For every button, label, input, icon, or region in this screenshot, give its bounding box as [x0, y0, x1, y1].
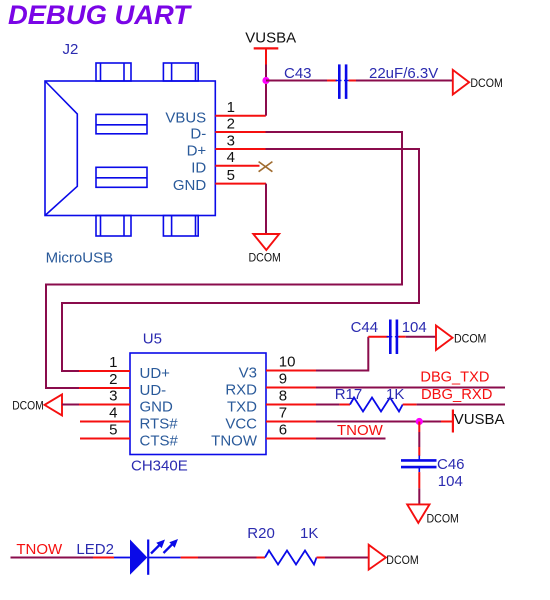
svg-text:104: 104 — [402, 319, 427, 336]
svg-text:CH340E: CH340E — [131, 458, 188, 475]
svg-text:7: 7 — [279, 405, 287, 422]
J2 shield tab top-left — [96, 63, 131, 81]
power DCOM (bottom right) — [369, 545, 419, 570]
IC U5 body — [130, 353, 266, 455]
svg-text:GND: GND — [140, 398, 174, 415]
svg-text:DBG_RXD: DBG_RXD — [421, 386, 493, 403]
svg-text:LED2: LED2 — [76, 541, 114, 558]
power symbol VUSBA (top) — [245, 29, 296, 64]
U5 pin 6 line — [266, 438, 316, 440]
svg-text:4: 4 — [109, 405, 117, 422]
svg-text:104: 104 — [438, 473, 463, 490]
svg-text:D+: D+ — [187, 143, 207, 160]
capacitor C46 — [401, 456, 437, 473]
svg-text:VUSBA: VUSBA — [245, 29, 296, 46]
wire C46 to DCOM — [418, 472, 420, 504]
svg-text:1K: 1K — [386, 386, 404, 403]
LED LED2 — [114, 539, 181, 575]
svg-text:D-: D- — [190, 126, 206, 143]
svg-text:DCOM: DCOM — [249, 251, 281, 265]
svg-text:1K: 1K — [300, 525, 318, 542]
wire U5 pin10 to C44 — [316, 337, 389, 371]
svg-text:3: 3 — [227, 132, 235, 149]
J2 pin 4 line — [215, 165, 259, 167]
svg-text:2: 2 — [109, 371, 117, 388]
svg-text:TNOW: TNOW — [337, 422, 384, 439]
svg-text:4: 4 — [227, 149, 235, 166]
power DCOM (top right) — [453, 70, 503, 95]
J2 shield tab bottom-right — [163, 216, 198, 237]
wire junction down to C46 — [418, 422, 420, 456]
svg-text:TNOW: TNOW — [211, 432, 258, 449]
svg-text:C44: C44 — [351, 319, 379, 336]
wire U5 pin7 to VUSBA — [316, 421, 452, 423]
J2 contact pad upper — [96, 114, 147, 133]
svg-text:DCOM: DCOM — [12, 399, 44, 413]
svg-text:22uF/6.3V: 22uF/6.3V — [369, 65, 438, 82]
wire GND pin to DCOM — [265, 184, 267, 234]
U5 pin 5 line — [80, 438, 130, 440]
svg-text:UD+: UD+ — [140, 365, 171, 382]
J2 pin 2 line — [215, 131, 265, 133]
U5 pin 2 line — [80, 387, 130, 389]
svg-text:DEBUG UART: DEBUG UART — [8, 0, 193, 30]
U5 pin 10 line — [266, 370, 316, 372]
svg-text:GND: GND — [173, 177, 207, 194]
svg-text:C46: C46 — [437, 456, 465, 473]
wire VUSBA stub to junction — [265, 65, 267, 81]
U5 pin 1 line — [80, 370, 130, 372]
U5 pin 7 line — [266, 421, 316, 423]
wire U5 pin8 to R17 — [316, 404, 350, 406]
power symbol VUSBA (right) — [453, 410, 505, 433]
wire net DBG_TXD (U5 pin9) — [316, 387, 505, 389]
power DCOM (left of U5 pin3) — [12, 394, 62, 415]
U5 pin 3 line — [79, 404, 130, 406]
svg-text:9: 9 — [279, 371, 287, 388]
wire junction down to pin 1 — [265, 81, 267, 116]
svg-text:1: 1 — [109, 354, 117, 371]
power DCOM (below C46) — [407, 504, 459, 525]
wire DCOM to U5 pin3 — [62, 404, 79, 406]
svg-text:R20: R20 — [247, 525, 275, 542]
wire R17 to DBG_RXD — [403, 404, 505, 406]
connector J2 body — [45, 81, 215, 216]
svg-text:CTS#: CTS# — [140, 432, 179, 449]
no-connect X on pin 4 — [259, 162, 273, 172]
wire TNOW to LED2 — [11, 557, 115, 559]
svg-text:ID: ID — [191, 159, 206, 176]
J2 contact pad lower — [96, 167, 147, 187]
svg-text:C43: C43 — [284, 65, 312, 82]
svg-text:DCOM: DCOM — [386, 553, 418, 567]
wire LED2 to R20 — [181, 557, 265, 559]
wire net D- (J2 pin2 to U5 pin2) — [46, 132, 402, 388]
svg-text:J2: J2 — [63, 41, 79, 58]
U5 pin 4 line — [80, 421, 130, 423]
wire C43 to DCOM — [349, 80, 453, 82]
junction node VCC — [416, 418, 423, 425]
svg-text:RXD: RXD — [225, 381, 257, 398]
svg-text:UD-: UD- — [140, 382, 167, 399]
svg-text:5: 5 — [227, 167, 235, 184]
junction node VBUS — [262, 77, 269, 84]
power DCOM (below J2) — [249, 234, 281, 265]
U5 pin 9 line — [266, 387, 316, 389]
wire junction to C43 — [266, 80, 337, 82]
svg-text:VCC: VCC — [225, 415, 257, 432]
J2 pin 5 line — [215, 183, 266, 185]
U5 pin 8 line — [266, 404, 316, 406]
resistor R17 — [350, 398, 403, 412]
svg-text:R17: R17 — [335, 386, 363, 403]
svg-text:DBG_TXD: DBG_TXD — [420, 369, 489, 386]
svg-text:DCOM: DCOM — [427, 512, 459, 526]
svg-text:V3: V3 — [239, 364, 257, 381]
svg-text:DCOM: DCOM — [470, 76, 502, 90]
svg-text:DCOM: DCOM — [454, 332, 486, 346]
svg-text:2: 2 — [227, 115, 235, 132]
J2 shield tab bottom-left — [96, 216, 131, 237]
wire R20 to DCOM — [317, 557, 369, 559]
svg-text:MicroUSB: MicroUSB — [46, 250, 114, 267]
wire U5 pin6 TNOW stub — [316, 438, 386, 440]
capacitor C44 — [387, 320, 401, 355]
svg-text:U5: U5 — [143, 330, 162, 347]
J2 pin 3 line — [215, 148, 265, 150]
svg-text:5: 5 — [109, 422, 117, 439]
svg-text:8: 8 — [279, 388, 287, 405]
power DCOM (right of C44) — [436, 326, 486, 351]
svg-text:1: 1 — [227, 99, 235, 116]
J2 shield tab top-right — [163, 63, 198, 81]
svg-text:10: 10 — [279, 354, 296, 371]
svg-text:RTS#: RTS# — [140, 415, 179, 432]
svg-text:VBUS: VBUS — [165, 109, 206, 126]
svg-text:6: 6 — [279, 422, 287, 439]
resistor R20 — [265, 551, 317, 565]
svg-text:TNOW: TNOW — [16, 541, 63, 558]
capacitor C43 — [336, 64, 350, 99]
wire C44 to DCOM — [399, 336, 437, 338]
svg-text:VUSBA: VUSBA — [454, 411, 505, 428]
J2 pin 1 line — [215, 115, 265, 117]
svg-text:3: 3 — [109, 388, 117, 405]
svg-text:TXD: TXD — [227, 398, 257, 415]
wire net D+ (J2 pin3 to U5 pin1) — [62, 149, 419, 371]
